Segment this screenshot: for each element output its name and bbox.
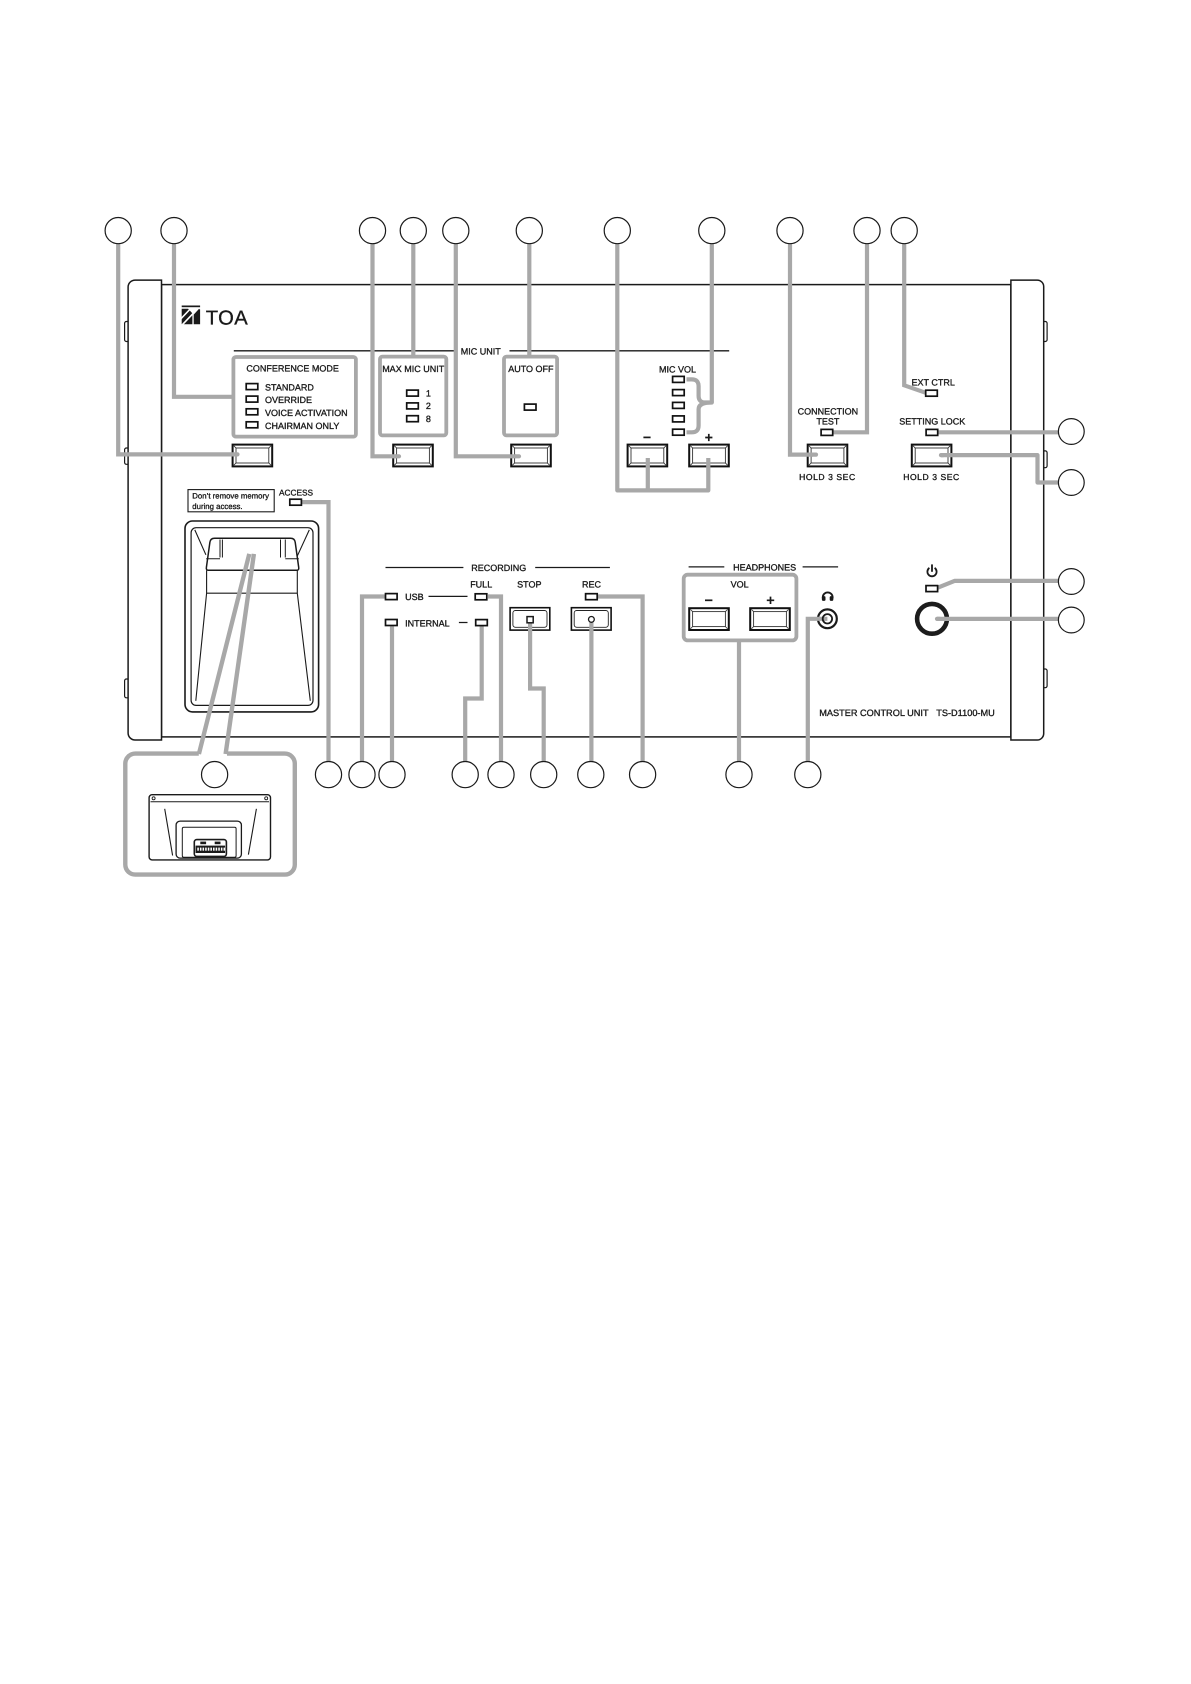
svg-text:STANDARD: STANDARD bbox=[265, 382, 314, 392]
svg-text:CONFERENCE MODE: CONFERENCE MODE bbox=[246, 364, 339, 374]
svg-text:2: 2 bbox=[426, 401, 431, 411]
svg-text:EXT CTRL: EXT CTRL bbox=[912, 378, 955, 388]
svg-text:TEST: TEST bbox=[816, 416, 840, 426]
svg-text:ACCESS: ACCESS bbox=[279, 488, 314, 498]
svg-text:STOP: STOP bbox=[517, 580, 541, 590]
svg-text:CHAIRMAN ONLY: CHAIRMAN ONLY bbox=[265, 421, 339, 431]
svg-text:HOLD 3 SEC: HOLD 3 SEC bbox=[903, 472, 960, 482]
svg-text:USB: USB bbox=[405, 592, 424, 602]
svg-text:FULL: FULL bbox=[470, 580, 492, 590]
svg-text:CONNECTION: CONNECTION bbox=[798, 406, 859, 416]
svg-text:VOICE ACTIVATION: VOICE ACTIVATION bbox=[265, 408, 348, 418]
svg-text:TOA: TOA bbox=[206, 307, 248, 329]
svg-text:SETTING LOCK: SETTING LOCK bbox=[899, 416, 965, 426]
svg-text:AUTO OFF: AUTO OFF bbox=[508, 364, 554, 374]
svg-text:MIC VOL: MIC VOL bbox=[659, 365, 696, 375]
svg-text:HOLD 3 SEC: HOLD 3 SEC bbox=[799, 472, 856, 482]
svg-text:INTERNAL: INTERNAL bbox=[405, 618, 450, 628]
svg-text:1: 1 bbox=[426, 388, 431, 398]
svg-text:8: 8 bbox=[426, 414, 431, 424]
svg-text:RECORDING: RECORDING bbox=[471, 563, 526, 573]
svg-text:HEADPHONES: HEADPHONES bbox=[733, 562, 796, 572]
svg-text:MIC UNIT: MIC UNIT bbox=[461, 346, 501, 356]
svg-text:REC: REC bbox=[582, 580, 602, 590]
svg-text:Don’t remove memory: Don’t remove memory bbox=[192, 491, 269, 500]
svg-text:during access.: during access. bbox=[192, 502, 242, 511]
svg-text:OVERRIDE: OVERRIDE bbox=[265, 395, 312, 405]
svg-text:MASTER CONTROL UNIT TS-D1100: MASTER CONTROL UNIT TS-D1100-MU bbox=[819, 708, 995, 718]
svg-text:VOL: VOL bbox=[731, 579, 749, 589]
svg-text:MAX MIC UNIT: MAX MIC UNIT bbox=[382, 364, 445, 374]
